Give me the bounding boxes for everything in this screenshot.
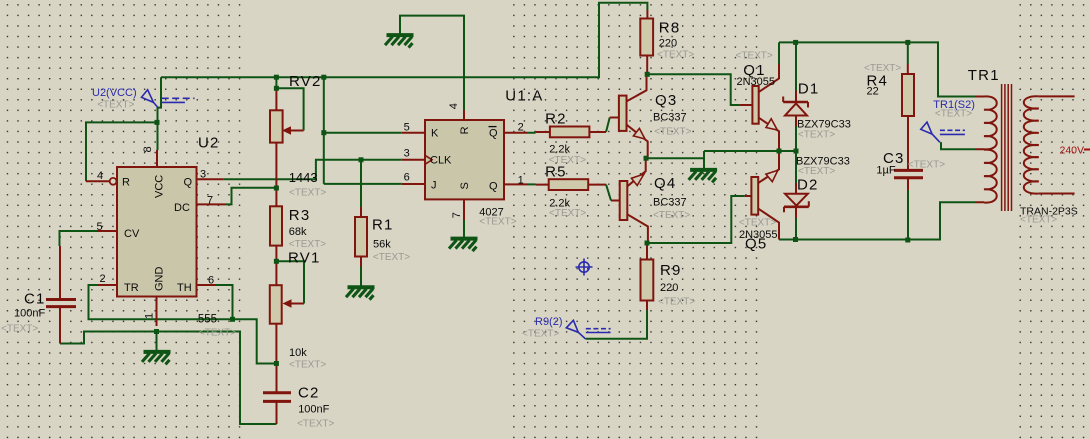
svg-text:5: 5 — [97, 221, 103, 233]
svg-text:<TEXT>: <TEXT> — [653, 210, 690, 221]
svg-text:<TEXT>: <TEXT> — [654, 127, 691, 138]
svg-text:<TEXT>: <TEXT> — [97, 100, 134, 111]
svg-text:1: 1 — [518, 175, 524, 187]
svg-text:8: 8 — [142, 146, 154, 152]
svg-text:<TEXT>: <TEXT> — [289, 360, 326, 371]
svg-text:<TEXT>: <TEXT> — [798, 166, 835, 177]
svg-text:R2: R2 — [545, 111, 567, 128]
svg-text:BC337: BC337 — [653, 197, 687, 209]
svg-text:<TEXT>: <TEXT> — [1020, 215, 1057, 226]
svg-text:7: 7 — [451, 212, 463, 218]
svg-text:2.2k: 2.2k — [549, 144, 570, 156]
svg-text:<TEXT>: <TEXT> — [549, 155, 586, 166]
svg-text:S: S — [459, 182, 471, 189]
svg-text:<TEXT>: <TEXT> — [657, 50, 694, 61]
svg-text:<TEXT>: <TEXT> — [289, 188, 326, 199]
svg-text:<TEXT>: <TEXT> — [297, 419, 334, 430]
svg-text:U1:A: U1:A — [505, 88, 543, 105]
svg-text:CV: CV — [124, 228, 140, 240]
svg-text:56k: 56k — [373, 239, 391, 251]
svg-text:U2: U2 — [198, 135, 220, 152]
svg-text:VCC: VCC — [154, 175, 166, 198]
svg-text:<TEXT>: <TEXT> — [739, 218, 776, 229]
svg-text:CLK: CLK — [430, 155, 452, 167]
svg-text:Q: Q — [489, 127, 498, 139]
svg-text:D1: D1 — [798, 81, 820, 98]
svg-text:2: 2 — [518, 122, 524, 134]
svg-text:2N3055: 2N3055 — [739, 229, 778, 241]
svg-text:R1: R1 — [372, 217, 394, 234]
svg-text:10k: 10k — [289, 347, 307, 359]
svg-text:<TEXT>: <TEXT> — [736, 51, 773, 62]
svg-text:C2: C2 — [298, 385, 320, 402]
svg-text:R: R — [459, 126, 471, 134]
svg-text:TR: TR — [124, 282, 139, 294]
svg-text:3: 3 — [404, 148, 410, 160]
svg-text:<TEXT>: <TEXT> — [908, 160, 945, 171]
svg-text:J: J — [431, 179, 437, 191]
svg-text:<TEXT>: <TEXT> — [549, 208, 586, 219]
svg-text:240V: 240V — [1060, 144, 1085, 156]
svg-text:R3: R3 — [289, 207, 311, 224]
svg-text:GND: GND — [154, 267, 166, 292]
svg-text:Q4: Q4 — [654, 175, 676, 192]
svg-text:Q: Q — [489, 181, 498, 193]
svg-text:7: 7 — [207, 194, 213, 206]
svg-text:Q: Q — [184, 176, 193, 188]
svg-text:<TEXT>: <TEXT> — [289, 239, 326, 250]
svg-text:<TEXT>: <TEXT> — [658, 297, 695, 308]
svg-text:R5: R5 — [545, 163, 567, 180]
svg-text:220: 220 — [659, 38, 677, 50]
svg-text:D2: D2 — [797, 177, 819, 194]
svg-text:100nF: 100nF — [298, 404, 329, 416]
svg-text:<TEXT>: <TEXT> — [479, 216, 516, 227]
svg-text:2N3055: 2N3055 — [737, 76, 776, 88]
svg-text:6: 6 — [208, 274, 214, 286]
svg-text:4: 4 — [448, 103, 460, 109]
svg-text:<TEXT>: <TEXT> — [1, 324, 38, 335]
svg-text:K: K — [431, 127, 439, 139]
svg-text:RV2: RV2 — [289, 73, 322, 90]
svg-text:C1: C1 — [24, 291, 46, 308]
svg-text:<TEXT>: <TEXT> — [522, 328, 559, 339]
svg-text:Q3: Q3 — [655, 92, 677, 109]
svg-text:R8: R8 — [659, 20, 681, 37]
svg-text:U2(VCC): U2(VCC) — [92, 87, 137, 99]
svg-text:TR1: TR1 — [968, 67, 1000, 84]
svg-text:68k: 68k — [289, 226, 307, 238]
svg-text:555: 555 — [198, 314, 217, 326]
svg-text:1: 1 — [144, 313, 156, 319]
svg-text:R9(2): R9(2) — [535, 316, 563, 328]
svg-text:BC337: BC337 — [653, 112, 687, 124]
svg-text:<TEXT>: <TEXT> — [864, 63, 901, 74]
svg-text:RV1: RV1 — [288, 250, 321, 267]
svg-text:6: 6 — [404, 172, 410, 184]
svg-text:22: 22 — [867, 86, 879, 98]
svg-text:R9: R9 — [660, 262, 682, 279]
svg-text:100nF: 100nF — [14, 308, 45, 320]
svg-text:1µF: 1µF — [876, 164, 895, 176]
svg-text:DC: DC — [174, 202, 190, 214]
svg-text:1443: 1443 — [289, 170, 318, 185]
svg-text:TR1(S2): TR1(S2) — [933, 99, 975, 111]
svg-text:220: 220 — [660, 282, 678, 294]
svg-text:3: 3 — [200, 168, 206, 180]
svg-text:4: 4 — [97, 170, 103, 182]
svg-text:5: 5 — [404, 122, 410, 134]
svg-text:R: R — [122, 176, 130, 188]
svg-text:TH: TH — [177, 282, 192, 294]
svg-text:<TEXT>: <TEXT> — [199, 328, 236, 339]
svg-text:<TEXT>: <TEXT> — [373, 252, 410, 263]
svg-text:<TEXT>: <TEXT> — [798, 130, 835, 141]
svg-text:2: 2 — [100, 273, 106, 285]
